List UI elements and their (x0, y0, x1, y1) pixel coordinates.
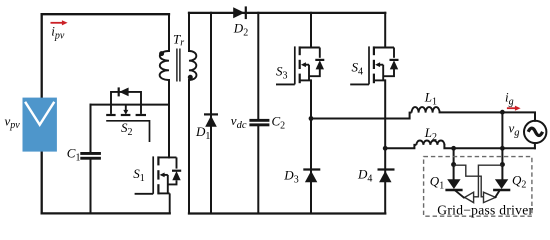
svg-text:Grid−pass driver: Grid−pass driver (437, 203, 533, 218)
